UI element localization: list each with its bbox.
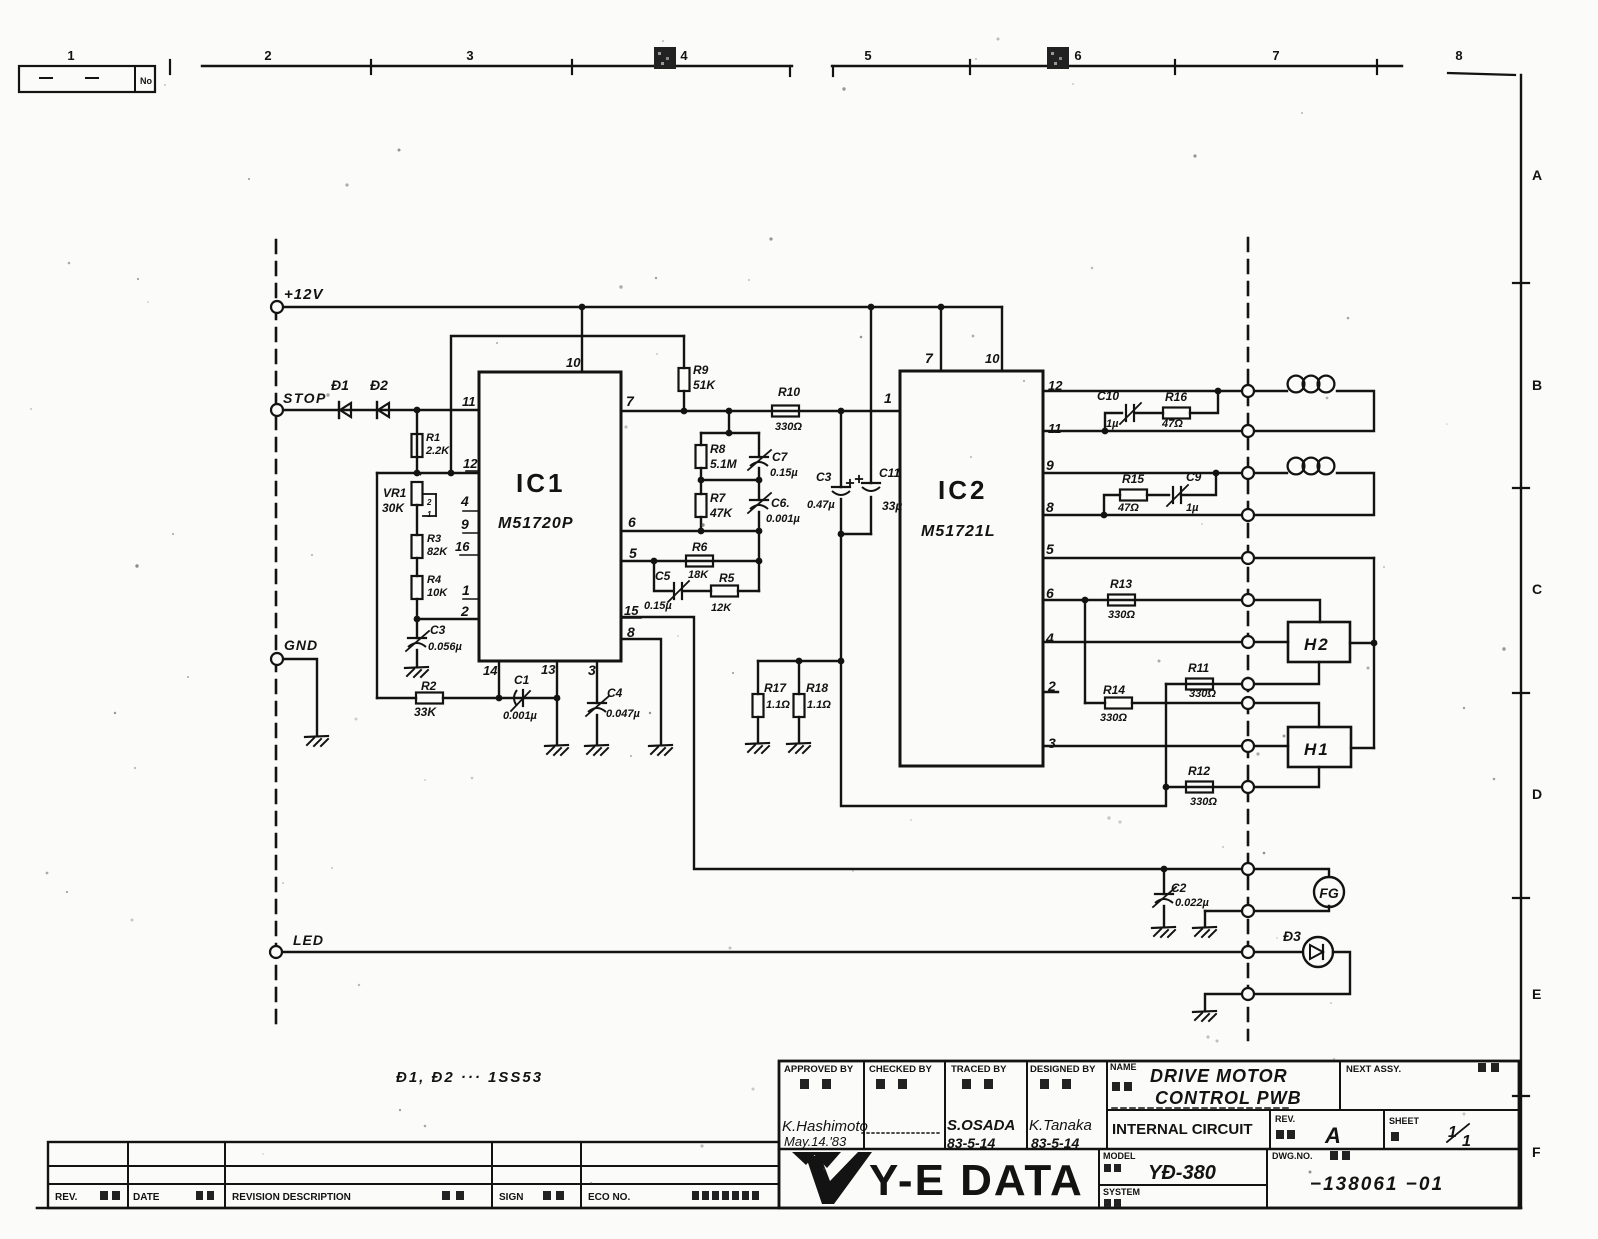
svg-text:9: 9	[1046, 457, 1054, 473]
svg-text:5: 5	[864, 48, 871, 63]
svg-text:+12V: +12V	[284, 286, 324, 303]
connector pin circle p4	[1242, 636, 1254, 648]
IC U2 M51721L	[900, 371, 1043, 766]
svg-text:R15: R15	[1122, 472, 1144, 486]
wire decoupling drop to R17/R18 and R12	[841, 534, 1166, 806]
svg-text:0.047µ: 0.047µ	[606, 708, 641, 720]
connector pin circle led-	[1242, 988, 1254, 1000]
svg-text:10: 10	[985, 351, 1000, 366]
node pin14 / R2	[496, 695, 503, 702]
svg-text:0.022µ: 0.022µ	[1175, 897, 1210, 909]
wire IC2 pin8 row	[1043, 514, 1248, 516]
svg-text:F: F	[1532, 1144, 1541, 1160]
hall element H2	[1288, 622, 1350, 662]
svg-text:A: A	[1532, 167, 1542, 183]
svg-text:CHECKED BY: CHECKED BY	[869, 1064, 932, 1075]
svg-text:H2: H2	[1304, 635, 1330, 654]
svg-text:Đ3: Đ3	[1283, 928, 1301, 944]
svg-text:K.Hashimoto: K.Hashimoto	[782, 1118, 868, 1135]
svg-text:Đ2: Đ2	[370, 377, 388, 393]
svg-text:7: 7	[1272, 48, 1279, 63]
svg-text:DATE: DATE	[133, 1192, 160, 1203]
diode D1	[338, 402, 340, 418]
svg-text:18K: 18K	[688, 569, 709, 581]
svg-text:R4: R4	[427, 574, 441, 586]
svg-text:8: 8	[1455, 48, 1462, 63]
ground below C3	[405, 667, 428, 668]
wire LED row	[276, 951, 1303, 953]
wire LED return	[1205, 952, 1350, 1010]
svg-text:E: E	[1532, 986, 1541, 1002]
svg-text:0.47µ: 0.47µ	[807, 499, 835, 511]
wire IC2 pin12 row	[1043, 390, 1248, 392]
generator FG	[1314, 877, 1344, 907]
resistor R18 1.1	[796, 658, 803, 665]
svg-text:Đ1: Đ1	[331, 377, 349, 393]
IC2 pin2 stub	[1043, 691, 1058, 693]
svg-text:6: 6	[1046, 585, 1054, 601]
svg-text:2: 2	[460, 603, 469, 619]
svg-text:0.15µ: 0.15µ	[644, 600, 672, 612]
svg-text:C3: C3	[816, 470, 832, 484]
svg-text:C4: C4	[607, 686, 623, 700]
svg-text:NAME: NAME	[1110, 1062, 1137, 1072]
wire IC1 pin2 row	[417, 618, 479, 620]
svg-text:TRACED BY: TRACED BY	[951, 1064, 1007, 1075]
svg-text:R12: R12	[1188, 764, 1210, 778]
svg-text:R7: R7	[710, 491, 727, 505]
svg-text:Y-E DATA: Y-E DATA	[869, 1156, 1084, 1205]
svg-text:1: 1	[67, 48, 74, 63]
wire H2 right to bus	[1350, 642, 1374, 644]
wire IC2 pin11 row	[1043, 430, 1248, 432]
svg-text:47K: 47K	[709, 506, 733, 520]
IC U1 M51720P	[479, 372, 621, 661]
svg-text:8: 8	[1046, 499, 1054, 515]
svg-text:1: 1	[462, 582, 470, 598]
capacitor C4 0.047u	[588, 702, 606, 704]
svg-text:11: 11	[1048, 421, 1062, 436]
border: top rule with zone numbers	[202, 65, 792, 67]
wire C5/R5 loop	[654, 561, 673, 591]
svg-text:C6.: C6.	[771, 496, 790, 510]
svg-text:12K: 12K	[711, 602, 732, 614]
revision history table	[48, 1142, 779, 1208]
ground below R18	[787, 743, 810, 744]
terminal GND	[271, 653, 283, 665]
svg-text:STOP: STOP	[283, 390, 327, 406]
resistor R13 330	[1108, 595, 1135, 606]
ground FG return	[1193, 927, 1216, 928]
svg-text:R3: R3	[427, 533, 441, 545]
capacitor C9 1u	[1172, 487, 1174, 503]
capacitor C3 0.056u	[416, 619, 418, 638]
svg-text:51K: 51K	[693, 378, 716, 392]
svg-text:LED: LED	[293, 932, 324, 948]
svg-text:May.14.'83: May.14.'83	[784, 1134, 847, 1149]
svg-text:7: 7	[925, 350, 934, 366]
svg-text:C7: C7	[772, 450, 789, 464]
svg-text:1: 1	[1462, 1133, 1471, 1150]
connector pin circle fg+	[1242, 863, 1254, 875]
svg-text:0.15µ: 0.15µ	[770, 467, 798, 479]
svg-text:C1: C1	[514, 673, 530, 687]
node R17/R18 rail joint	[838, 658, 845, 665]
wire hall supply right bus	[1373, 558, 1375, 748]
svg-text:C3: C3	[430, 623, 446, 637]
svg-text:1.1Ω: 1.1Ω	[807, 699, 831, 711]
svg-text:15: 15	[624, 603, 639, 618]
svg-text:5: 5	[629, 545, 637, 561]
ground LED return	[1193, 1011, 1216, 1012]
svg-text:330Ω: 330Ω	[1108, 609, 1135, 621]
svg-text:0.001µ: 0.001µ	[766, 513, 801, 525]
resistor R12 330	[1186, 782, 1213, 793]
svg-text:R6: R6	[692, 540, 708, 554]
svg-text:82K: 82K	[427, 546, 448, 558]
zone marker square (col 4)	[654, 47, 676, 69]
resistor R8 5.1M	[700, 433, 702, 445]
border: right rule with zone letters	[1448, 73, 1515, 75]
node D2 / R1 junction	[414, 407, 421, 414]
svg-text:A: A	[1324, 1123, 1341, 1148]
svg-text:R10: R10	[778, 385, 800, 399]
wire R11 row to H2 bottom	[1166, 662, 1319, 684]
wire +12V rail	[277, 306, 1002, 308]
svg-text:ECO NO.: ECO NO.	[588, 1192, 630, 1203]
wire IC1 pin5 row	[621, 560, 759, 562]
svg-text:−138061 −01: −138061 −01	[1310, 1174, 1444, 1195]
svg-text:4: 4	[680, 48, 688, 63]
svg-text:No: No	[140, 76, 152, 86]
svg-text:9: 9	[461, 516, 469, 532]
Y-E DATA logo	[792, 1152, 817, 1165]
capacitor C6 0.001u	[758, 480, 760, 500]
node C10 branch joint	[1102, 428, 1109, 435]
svg-text:Đ1, Đ2 ··· 1SS53: Đ1, Đ2 ··· 1SS53	[396, 1069, 543, 1086]
svg-text:B: B	[1532, 377, 1542, 393]
snubber branch C10/R16	[1105, 413, 1122, 431]
svg-text:47Ω: 47Ω	[1161, 418, 1183, 430]
wire FG top feed	[1164, 869, 1329, 878]
wire IC2 pin9 row	[1043, 472, 1248, 474]
wire IC1 pin13 to ground	[556, 661, 558, 744]
svg-text:R18: R18	[806, 681, 828, 695]
svg-text:4: 4	[460, 493, 469, 509]
resistor R9 51K	[683, 336, 685, 368]
svg-text:1µ: 1µ	[1186, 502, 1199, 514]
node decoupling bottom joint	[841, 533, 871, 535]
svg-text:IC1: IC1	[516, 468, 565, 498]
svg-text:R14: R14	[1103, 683, 1125, 697]
svg-text:11: 11	[462, 394, 476, 409]
wire R13 to H2 top	[1248, 600, 1320, 622]
svg-text:2: 2	[426, 498, 432, 507]
ground below C2	[1152, 927, 1175, 928]
svg-text:C11: C11	[879, 466, 900, 480]
wire GND drop	[277, 659, 317, 735]
svg-text:330Ω: 330Ω	[775, 421, 802, 433]
svg-text:INTERNAL CIRCUIT: INTERNAL CIRCUIT	[1112, 1121, 1253, 1138]
wire VR1 chain	[416, 505, 418, 535]
svg-text:IC2: IC2	[938, 475, 987, 505]
svg-text:S.OSADA: S.OSADA	[947, 1117, 1015, 1134]
svg-text:13: 13	[541, 662, 556, 677]
capacitor C5 0.15u	[673, 583, 675, 599]
wire IC1 pin8 to ground	[621, 639, 661, 744]
svg-text:R5: R5	[719, 571, 735, 585]
svg-text:C5: C5	[655, 569, 671, 583]
svg-text:FG: FG	[1319, 885, 1339, 901]
svg-text:NEXT ASSY.: NEXT ASSY.	[1346, 1064, 1401, 1075]
diode D2	[376, 402, 378, 418]
connector pin circle led+	[1242, 946, 1254, 958]
node pin5 / C5 branch	[651, 558, 658, 565]
connector pin circle hall2	[1242, 697, 1254, 709]
wire IC1 pin15 long run to FG	[621, 617, 1164, 869]
wire riser to R9 over IC1	[451, 336, 684, 473]
svg-text:2.2K: 2.2K	[425, 445, 450, 457]
ground below pin8 wire	[649, 745, 672, 746]
capacitor C2 0.022u	[1163, 869, 1165, 894]
connector pin circle p6	[1242, 594, 1254, 606]
svg-text:10K: 10K	[427, 587, 448, 599]
node R4 bottom / C3 top	[414, 616, 421, 623]
wire IC2 pin3 row to H1	[1043, 745, 1288, 747]
resistor R17 1.1	[757, 661, 759, 694]
connector pin circle p3	[1242, 740, 1254, 752]
connector boundary dash line (right)	[1247, 238, 1250, 1040]
terminal LED	[270, 946, 282, 958]
node pin6 to R14 drop	[1082, 597, 1089, 604]
svg-text:REV.: REV.	[1275, 1114, 1295, 1124]
wire IC2 pin6 row	[1043, 599, 1248, 601]
svg-text:REV.: REV.	[55, 1192, 78, 1203]
node +12V to IC2 pin7	[938, 304, 945, 311]
model cell: YD-380	[1098, 1149, 1100, 1208]
svg-text:DESIGNED BY: DESIGNED BY	[1030, 1064, 1096, 1075]
connector pin circle p5	[1242, 552, 1254, 564]
svg-text:47Ω: 47Ω	[1117, 502, 1139, 514]
svg-text:83-5-14: 83-5-14	[947, 1135, 995, 1151]
RC ladder top rung	[701, 432, 759, 434]
svg-text:R2: R2	[421, 679, 437, 693]
wire IC2 pin5 row to hall supply	[1043, 557, 1374, 559]
svg-text:SHEET: SHEET	[1389, 1116, 1420, 1126]
svg-text:C9: C9	[1186, 470, 1202, 484]
resistor R3 82K	[412, 535, 423, 558]
resistor R2 33K	[416, 693, 443, 704]
terminal +12V	[271, 301, 283, 313]
svg-text:C10: C10	[1097, 389, 1119, 403]
svg-text:R11: R11	[1188, 661, 1209, 675]
node pin12 riser	[448, 470, 455, 477]
svg-text:D: D	[1532, 786, 1542, 802]
svg-text:4: 4	[1045, 630, 1054, 646]
svg-text:14: 14	[483, 663, 498, 678]
resistor R1 2.2K	[416, 410, 418, 473]
wire STOP row to IC1 pin11	[277, 409, 479, 411]
wire IC1 pin6 row	[621, 530, 759, 532]
wire IC1 pin12 row	[377, 472, 479, 474]
wire IC2 pin4 row to H2	[1043, 641, 1288, 643]
resistor R14 330	[1105, 698, 1132, 709]
potentiometer VR1 30K	[376, 473, 378, 698]
svg-text:330Ω: 330Ω	[1190, 796, 1217, 808]
motor winding L2	[1248, 472, 1287, 474]
svg-text:R1: R1	[426, 432, 440, 444]
resistor R10 330	[772, 406, 799, 417]
ground below pin13	[545, 745, 568, 746]
svg-text:330Ω: 330Ω	[1100, 712, 1127, 724]
connector pin circle p11	[1242, 425, 1254, 437]
node +12V to C11 branch	[868, 304, 875, 311]
svg-text:2: 2	[264, 48, 271, 63]
svg-text:6: 6	[1074, 48, 1081, 63]
svg-text:YĐ-380: YĐ-380	[1148, 1162, 1216, 1184]
node R15 branch joint	[1101, 512, 1108, 519]
svg-text:R8: R8	[710, 442, 726, 456]
svg-text:5.1M: 5.1M	[710, 457, 738, 471]
node C3cap top	[838, 408, 845, 415]
svg-text:6: 6	[628, 514, 636, 530]
svg-text:3: 3	[588, 662, 596, 678]
ladder mid rung	[701, 479, 759, 481]
svg-text:12: 12	[463, 456, 478, 471]
node C2 joint on FG wire	[1161, 866, 1168, 873]
svg-text:R13: R13	[1110, 577, 1132, 591]
wire R2 row	[377, 697, 416, 699]
svg-text:0.056µ: 0.056µ	[428, 641, 463, 653]
connector pin circle p12	[1242, 385, 1254, 397]
title block frame	[779, 1061, 1519, 1208]
svg-text:1: 1	[884, 390, 892, 406]
svg-text:H1: H1	[1304, 740, 1330, 759]
diode D3 (LED)	[1303, 937, 1333, 967]
svg-text:0.001µ: 0.001µ	[503, 710, 538, 722]
node +12V to IC1 pin10	[579, 304, 586, 311]
connector pin circle p9	[1242, 467, 1254, 479]
svg-text:R16: R16	[1165, 390, 1187, 404]
capacitor C3cap 0.47u electrolytic	[832, 486, 850, 488]
top-left No. box	[19, 66, 155, 92]
svg-text:8: 8	[627, 624, 635, 640]
connector pin circle p8	[1242, 509, 1254, 521]
svg-text:K.Tanaka: K.Tanaka	[1029, 1117, 1092, 1134]
svg-text:CONTROL PWB: CONTROL PWB	[1155, 1088, 1302, 1108]
capacitor C7 0.15u	[758, 433, 760, 457]
wire H1 right to bus	[1351, 747, 1374, 749]
svg-text:33K: 33K	[414, 705, 437, 719]
ground below R17	[746, 743, 769, 744]
capacitor C10 1u	[1125, 405, 1127, 421]
svg-text:C2: C2	[1171, 881, 1187, 895]
node ladder top	[726, 408, 733, 415]
resistor R7 47K	[700, 480, 702, 494]
svg-text:30K: 30K	[382, 501, 405, 515]
svg-text:SYSTEM: SYSTEM	[1103, 1187, 1140, 1197]
svg-text:VR1: VR1	[383, 486, 407, 500]
wire R17/R18 top rail	[758, 660, 841, 662]
terminal STOP	[271, 404, 283, 416]
svg-text:DRIVE MOTOR: DRIVE MOTOR	[1150, 1066, 1288, 1086]
border: bottom rule	[37, 1207, 1521, 1210]
resistor R15 47	[1120, 490, 1147, 501]
connector pin circle hall3	[1242, 781, 1254, 793]
wire FG return	[1205, 906, 1329, 911]
wire R14 row to H1 top	[1085, 702, 1105, 704]
svg-text:SIGN: SIGN	[499, 1192, 523, 1203]
ground below C4	[585, 745, 608, 746]
connector pin circle hall1	[1242, 678, 1254, 690]
node R6 right	[756, 558, 763, 565]
wire IC1 pin14 stub	[498, 661, 500, 698]
resistor R16 47	[1163, 408, 1190, 419]
connector pin circle fg-	[1242, 905, 1254, 917]
wire +12V to IC2 pin10	[1001, 307, 1003, 371]
svg-text:3: 3	[466, 48, 473, 63]
svg-text:MODEL: MODEL	[1103, 1151, 1136, 1161]
svg-text:5: 5	[1046, 541, 1054, 557]
capacitor C1 0.001u	[522, 690, 524, 706]
wire IC1 pin3 to C4	[596, 661, 598, 703]
svg-text:1: 1	[427, 510, 432, 519]
node R16 top joint	[1215, 388, 1222, 395]
svg-text:1.1Ω: 1.1Ω	[766, 699, 790, 711]
node C9 top joint	[1213, 470, 1220, 477]
svg-text:DWG.NO.: DWG.NO.	[1272, 1151, 1313, 1161]
svg-text:M51720P: M51720P	[498, 515, 574, 532]
node R14 / R12 riser	[1165, 684, 1167, 787]
svg-text:330Ω: 330Ω	[1189, 688, 1216, 700]
svg-text:APPROVED BY: APPROVED BY	[784, 1064, 854, 1075]
ground below GND terminal	[305, 736, 328, 737]
wire R12 row to H1 bottom	[1163, 784, 1170, 791]
zone marker square (col 6)	[1047, 47, 1069, 69]
wire IC1 pin7 row to IC2 pin1	[621, 410, 900, 412]
svg-text:16: 16	[455, 539, 470, 554]
resistor R6 18K	[686, 556, 713, 567]
resistor R5 12K	[711, 586, 738, 597]
resistor R11 330	[1186, 679, 1213, 690]
node pin13 / C1	[554, 695, 561, 702]
svg-text:C: C	[1532, 581, 1542, 597]
svg-text:3: 3	[1048, 735, 1056, 751]
svg-text:GND: GND	[284, 637, 318, 653]
svg-text:M51721L: M51721L	[921, 523, 996, 540]
svg-text:R9: R9	[693, 363, 709, 377]
svg-text:10: 10	[566, 355, 581, 370]
hall element H1	[1288, 727, 1351, 767]
capacitor C11 33u electrolytic	[862, 482, 880, 484]
svg-text:REVISION DESCRIPTION: REVISION DESCRIPTION	[232, 1192, 351, 1203]
motor winding L1	[1248, 390, 1287, 392]
svg-text:R17: R17	[764, 681, 787, 695]
snubber branch R15/C9	[1104, 495, 1120, 515]
svg-text:7: 7	[626, 393, 635, 409]
svg-text:83-5-14: 83-5-14	[1031, 1135, 1079, 1151]
node R1 bottom / VR1 top	[414, 470, 421, 477]
resistor R4 10K	[412, 576, 423, 599]
svg-text:1µ: 1µ	[1106, 418, 1119, 430]
connector boundary dash line (left)	[275, 240, 278, 1023]
